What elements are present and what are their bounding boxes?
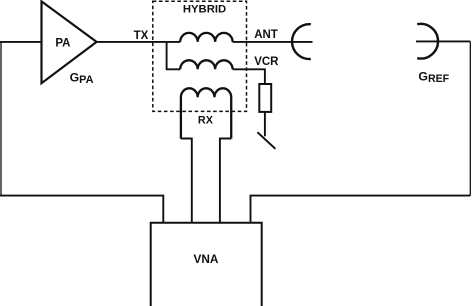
wire: TX junction to L2 [167, 42, 181, 69]
svg-text:HYBRID: HYBRID [183, 4, 226, 16]
amplifier PA [42, 1, 97, 83]
wire: right edge drop [469, 41, 471, 195]
antenna REF coupling arc [417, 24, 438, 59]
wire: L1 to antenna ANT [233, 41, 313, 43]
wire: PA input [0, 41, 42, 43]
svg-text:RX: RX [198, 115, 214, 127]
wire: RX left lead to VNA port2 [181, 139, 192, 223]
wire: REF antenna to right edge [416, 40, 470, 42]
wire: bottom left run to VNA port1 [0, 196, 163, 223]
svg-text:PA: PA [55, 37, 70, 49]
wire: TX from PA to hybrid [97, 41, 181, 43]
wire: RX right lead to VNA port3 [220, 139, 231, 223]
antenna ANT coupling arc [292, 24, 311, 59]
hybrid dashed enclosure [153, 1, 247, 111]
inductor L1 (TX-ANT winding) [180, 33, 232, 42]
resistor VCR [259, 84, 271, 112]
svg-text:GPA: GPA [70, 71, 94, 87]
svg-text:VCR: VCR [254, 56, 279, 68]
wire: L2 to VCR resistor [233, 69, 265, 84]
VNA instrument box [151, 223, 262, 306]
svg-text:GREF: GREF [418, 70, 449, 86]
svg-text:TX: TX [134, 30, 149, 42]
switch blade (variable arm) [257, 132, 275, 149]
svg-text:VNA: VNA [194, 252, 219, 266]
svg-text:ANT: ANT [254, 29, 278, 41]
inductor L3 (RX winding) [181, 88, 231, 138]
inductor L2 (VCR winding) [180, 60, 232, 69]
wire: VCR resistor lower lead [264, 112, 266, 136]
wire: bottom right run to VNA port4 [251, 196, 471, 223]
wire: VNA port1 feed along left edge [0, 42, 2, 196]
